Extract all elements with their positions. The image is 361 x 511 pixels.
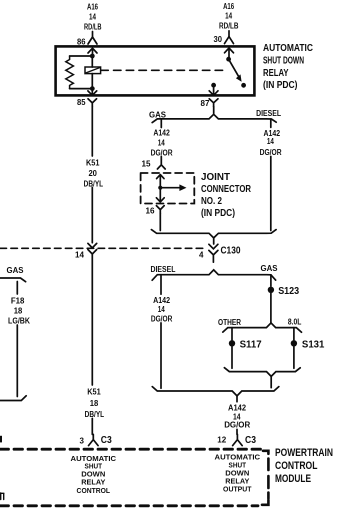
pin 87 contact dot	[211, 83, 216, 88]
svg-text:14: 14	[158, 305, 165, 314]
bus split other/8.0L	[223, 323, 302, 332]
svg-text:DIESEL: DIESEL	[256, 109, 281, 118]
wire label K51 20 DB/YL	[84, 158, 104, 188]
svg-text:A16: A16	[87, 3, 98, 12]
wire S117 down	[231, 347, 233, 369]
junction dot in joint connector	[158, 186, 162, 190]
switch pivot dot	[226, 57, 231, 62]
junction dot bottom of coil	[90, 86, 95, 91]
svg-text:GAS: GAS	[149, 111, 167, 120]
svg-text:14: 14	[75, 251, 85, 260]
svg-text:4: 4	[199, 250, 204, 259]
pin 3 connector fork C3	[89, 434, 99, 445]
joint connector name label	[201, 172, 252, 219]
wire K51 from pin 85 down	[91, 107, 93, 243]
wire merge to C130	[213, 238, 215, 244]
svg-text:3: 3	[80, 436, 85, 445]
wire gas lower branch to S123	[270, 275, 272, 287]
pin 15 entry arrow inside joint connector	[157, 175, 164, 188]
wire label A142 14 DG/OR (bottom)	[224, 404, 250, 430]
svg-text:A142: A142	[153, 129, 170, 138]
svg-text:MODULE: MODULE	[275, 473, 311, 485]
node A16 feed left label	[84, 3, 102, 32]
svg-text:SHUT DOWN: SHUT DOWN	[263, 56, 304, 67]
switch arm with arrowhead	[229, 59, 241, 79]
svg-text:A142: A142	[153, 296, 170, 305]
PCM box top right corner	[263, 451, 268, 454]
svg-text:C130: C130	[221, 245, 241, 257]
svg-text:A16: A16	[223, 2, 234, 11]
wire top to resistor	[70, 55, 93, 57]
svg-text:CONNECTOR: CONNECTOR	[201, 184, 252, 195]
joint connector J1 dashed box	[141, 173, 195, 204]
wire diesel branch down (right)	[270, 119, 272, 231]
wire label K51 18 DB/YL lower	[85, 387, 105, 419]
wire label A142 14 DG/OR (diesel lower)	[151, 296, 173, 324]
svg-text:JOINT: JOINT	[201, 172, 230, 183]
svg-text:14: 14	[267, 137, 274, 146]
bus split far left (cut at edge)	[0, 278, 26, 282]
svg-text:CONTROL: CONTROL	[77, 486, 111, 495]
wire label F18 18 LG/BK	[8, 296, 30, 325]
svg-text:NO. 2: NO. 2	[201, 196, 222, 207]
svg-text:K51: K51	[86, 158, 100, 167]
svg-text:DIESEL: DIESEL	[151, 265, 176, 274]
pin 86 entry arrow inside box	[88, 48, 97, 56]
svg-text:18: 18	[90, 399, 99, 408]
powertrain control module dashed box top edge	[0, 448, 262, 451]
wire pin16 to merge	[159, 213, 161, 230]
wire stub from A16 label to pin 86	[92, 32, 94, 38]
wire gas branch down to joint connector	[160, 119, 162, 160]
pin 85 exit arrow	[88, 89, 97, 96]
pin 16 exit arrow	[156, 188, 164, 202]
svg-text:8.0L: 8.0L	[288, 317, 302, 326]
svg-text:RD/LB: RD/LB	[84, 22, 102, 31]
svg-text:AUTOMATIC: AUTOMATIC	[263, 43, 313, 54]
PCM box right edge dashes	[267, 459, 270, 499]
wire through coil	[91, 56, 93, 89]
svg-text:12: 12	[217, 436, 227, 445]
junction dot top of coil	[90, 54, 95, 59]
svg-text:16: 16	[146, 206, 156, 215]
bus merge above C130	[151, 230, 276, 238]
svg-text:DG/OR: DG/OR	[224, 421, 250, 430]
svg-text:(IN PDC): (IN PDC)	[201, 208, 235, 219]
bus merge far left (cut at edge)	[0, 396, 26, 401]
svg-text:C3: C3	[245, 434, 256, 446]
svg-text:A142: A142	[228, 404, 247, 413]
pin 16 connector fork below joint connector	[156, 206, 164, 214]
splice S131 dot	[291, 340, 297, 346]
svg-text:85: 85	[77, 98, 86, 107]
svg-text:C3: C3	[101, 434, 112, 446]
svg-text:30: 30	[214, 35, 223, 44]
powertrain control module name	[275, 447, 333, 485]
svg-text:OUTPUT: OUTPUT	[223, 485, 252, 494]
svg-text:DG/OR: DG/OR	[260, 148, 282, 157]
wire big merge down	[236, 396, 238, 435]
PCM box bottom right corner	[262, 500, 268, 505]
svg-text:DG/OR: DG/OR	[151, 315, 173, 324]
svg-text:DB/YL: DB/YL	[85, 410, 105, 419]
pin 30 entry arrow inside box	[225, 48, 234, 59]
splice S117 dot	[229, 340, 235, 346]
svg-text:GAS: GAS	[7, 266, 25, 275]
wire stub from A16 label to pin 30	[228, 31, 230, 37]
pin 86 connector fork	[88, 37, 97, 44]
bus split below pin 87 (gas/diesel)	[152, 114, 276, 122]
wire label A142 14 DG/OR (diesel)	[260, 129, 282, 157]
connector C130 symbol	[209, 244, 218, 262]
svg-text:87: 87	[201, 99, 211, 108]
pin 14 in-line connector symbol on K51	[88, 243, 97, 254]
PCM output label: automatic shut down relay output	[215, 453, 261, 494]
cut text fragment left edge lower	[0, 493, 4, 500]
pin 85 connector fork below box	[88, 99, 97, 107]
svg-text:18: 18	[14, 307, 23, 316]
relay U1 box: automatic shut down relay	[56, 46, 255, 95]
svg-text:RD/LB: RD/LB	[219, 22, 239, 31]
pin 12 connector fork C3	[233, 434, 243, 445]
wire to S131	[293, 328, 295, 340]
wire S123 down	[270, 293, 272, 322]
svg-text:GAS: GAS	[261, 264, 279, 273]
svg-text:LG/BK: LG/BK	[8, 317, 30, 326]
svg-text:14: 14	[225, 11, 232, 20]
wire merge to big merge	[270, 376, 272, 387]
svg-text:(IN PDC): (IN PDC)	[263, 80, 298, 91]
splice S123 dot	[268, 287, 274, 293]
wire pin87 to split	[213, 107, 215, 114]
pin 87 connector fork below box	[209, 99, 218, 107]
pin 30 connector fork	[225, 37, 234, 44]
PCM input label: automatic shut down relay control	[71, 454, 117, 495]
bus split below C130 (diesel/gas)	[152, 270, 275, 280]
svg-text:14: 14	[89, 13, 96, 22]
svg-text:DG/OR: DG/OR	[151, 148, 173, 157]
svg-text:14: 14	[158, 138, 165, 147]
svg-text:RELAY: RELAY	[263, 68, 289, 79]
wire diesel lower branch	[160, 275, 162, 389]
wire K51 lower	[91, 254, 93, 434]
svg-text:S117: S117	[240, 339, 262, 351]
relay coil K1	[85, 67, 101, 74]
svg-text:15: 15	[142, 160, 152, 169]
relay name label	[263, 43, 313, 91]
wire label A142 14 DG/OR (gas)	[151, 129, 173, 158]
svg-text:K51: K51	[87, 387, 101, 396]
wire F18 branch	[16, 282, 18, 397]
switch contact dot (right)	[241, 83, 246, 88]
pin 15 connector fork	[157, 160, 165, 169]
powertrain control module dashed box bottom edge	[0, 504, 258, 507]
svg-text:86: 86	[77, 37, 86, 46]
svg-text:S131: S131	[302, 339, 325, 351]
node A16 feed right label	[219, 2, 239, 31]
wire to S117	[231, 328, 233, 340]
svg-text:POWERTRAIN: POWERTRAIN	[275, 447, 333, 459]
svg-text:20: 20	[88, 169, 97, 178]
arrow to right inside joint connector	[160, 187, 180, 189]
dashed connector line C130	[0, 247, 206, 249]
resistor R (in parallel with coil)	[66, 56, 74, 89]
coil to switch dashed link	[101, 69, 227, 71]
svg-text:CONTROL: CONTROL	[275, 460, 318, 472]
svg-text:DB/YL: DB/YL	[84, 179, 104, 188]
svg-text:F18: F18	[11, 296, 25, 305]
svg-text:S123: S123	[278, 285, 299, 297]
big bus merge diesel+gas	[152, 387, 278, 396]
svg-text:OTHER: OTHER	[218, 318, 241, 327]
wire bottom from resistor	[70, 88, 93, 90]
pin 87 exit arrow	[209, 85, 218, 95]
bus merge S117/S131	[224, 368, 300, 377]
wire S131 down	[293, 347, 295, 369]
cut text fragment left edge upper	[0, 436, 2, 443]
